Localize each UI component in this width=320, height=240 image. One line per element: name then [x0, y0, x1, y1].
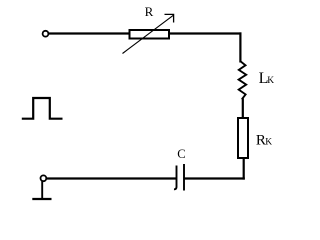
svg-text:K: K [267, 76, 274, 86]
wire (Lk to Rk) [242, 99, 244, 119]
svg-text:R: R [145, 4, 154, 19]
label Lk [259, 70, 275, 87]
resistor Rk [238, 118, 248, 158]
ground (chassis stub below J2) [32, 181, 51, 199]
terminal J2 (bottom-left) [41, 175, 47, 181]
wire top right (R to corner) [169, 32, 242, 34]
svg-text:C: C [177, 147, 185, 161]
capacitor C [174, 164, 184, 191]
pulse waveform symbol [22, 98, 63, 119]
inductor Lk (coil zigzag) [239, 61, 247, 99]
resistor R (variable) [130, 30, 170, 39]
wire bottom right (corner to C) [184, 177, 245, 179]
wire right vertical (corner to Lk) [239, 32, 241, 62]
arrow of variable resistor R [123, 14, 174, 53]
wire top (J1 to R) [49, 32, 130, 34]
wire bottom left (C to J2) [47, 177, 177, 179]
svg-text:K: K [265, 137, 272, 147]
wire (Rk to bottom corner) [243, 158, 245, 180]
label Rk [256, 132, 272, 148]
terminal J1 (top-left input) [43, 31, 49, 37]
